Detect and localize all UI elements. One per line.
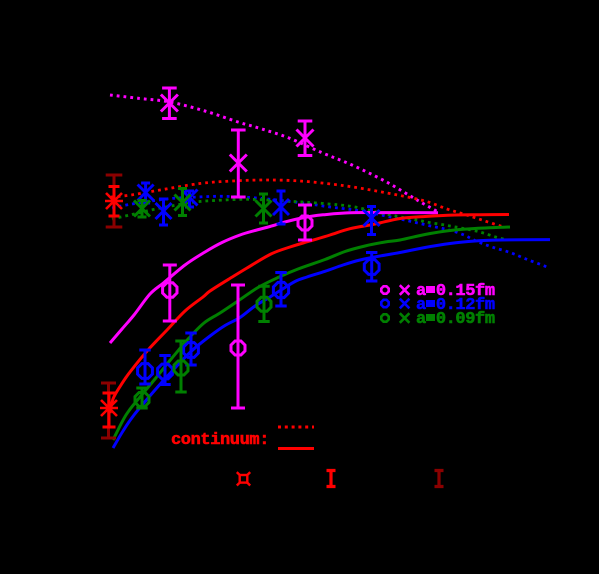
error bar X3 a=0.12fm — [185, 191, 194, 207]
circle marker 4 a=0.12fm — [273, 282, 288, 297]
error bar continuum point lower (red) — [103, 393, 116, 427]
circle marker 3 a=0.09fm — [257, 297, 271, 311]
legend label continuum: — [171, 432, 269, 449]
circle marker 1 a=0.12fm — [138, 364, 153, 379]
error bar X1 a=0.15fm — [162, 88, 177, 119]
legend X a=0.09fm — [400, 313, 410, 323]
error bar circle 3 a=0.12fm — [185, 333, 196, 365]
solid curve continuum (red) — [110, 215, 509, 414]
X marker 5 a=0.12fm — [364, 210, 380, 226]
error bar X2 a=0.15fm — [231, 130, 246, 197]
error bar circle 2 a=0.12fm — [159, 356, 170, 385]
legend label a=0.12fm — [416, 297, 495, 314]
currency-sign glyph (red) — [237, 472, 250, 485]
circle marker 3 a=0.12fm — [184, 343, 199, 358]
dotted curve a=0.09fm fit (green) — [112, 199, 507, 240]
legend circle a=0.09fm — [381, 314, 388, 321]
X marker 1 a=0.15fm — [161, 95, 178, 112]
X marker 2 a=0.15fm — [230, 155, 247, 172]
error bar circle 1 a=0.09fm — [136, 388, 147, 408]
legend label a=0.15fm — [416, 283, 495, 300]
error bar X2 a=0.09fm — [178, 189, 187, 216]
circle marker 1 a=0.15fm — [163, 283, 177, 297]
solid curve a=0.12fm (blue) — [113, 240, 550, 448]
legend circle a=0.15fm — [381, 286, 388, 293]
dotted curve continuum fit (red) — [111, 180, 505, 228]
star marker continuum point upper (red) — [105, 193, 123, 209]
error bar X1 a=0.09fm — [138, 201, 147, 218]
X marker 3 a=0.15fm — [297, 130, 314, 147]
error bar X4 a=0.12fm — [277, 191, 286, 224]
legend solid line sample (continuum) — [278, 447, 314, 450]
error bar X1 a=0.12fm — [141, 183, 150, 203]
legend dotted line sample (continuum fit) — [278, 426, 314, 429]
error bar X3 a=0.15fm — [298, 121, 313, 156]
X marker 1 a=0.12fm — [138, 185, 154, 201]
circle marker 2 a=0.15fm — [231, 341, 245, 355]
error bar circle 3 a=0.15fm — [298, 205, 312, 240]
solid curve a=0.15fm (magenta) — [110, 213, 438, 343]
circle marker 3 a=0.15fm — [298, 216, 312, 230]
error bar continuum point upper (red) — [109, 187, 120, 217]
X marker 4 a=0.12fm — [273, 199, 289, 215]
star marker continuum point lower (red) — [100, 400, 118, 416]
error bar circle 5 a=0.12fm — [366, 253, 377, 282]
dotted curve a=0.15fm fit (magenta) — [110, 95, 439, 213]
error bar X5 a=0.12fm — [367, 207, 376, 235]
error bar circle 3 a=0.09fm — [258, 286, 269, 321]
systematic error bar lower (dark red) — [101, 383, 116, 438]
legend circle a=0.12fm — [381, 300, 388, 307]
error bar circle 1 a=0.15fm — [163, 265, 177, 321]
X marker 1 a=0.09fm — [134, 201, 150, 217]
X marker 3 a=0.12fm — [182, 190, 198, 206]
X marker 3 a=0.09fm — [256, 201, 272, 217]
letter I tick (bright red) — [327, 471, 336, 487]
legend X a=0.15fm — [400, 285, 410, 295]
circle marker 5 a=0.12fm — [364, 260, 379, 275]
circle marker 2 a=0.09fm — [174, 361, 188, 375]
solid curve a=0.09fm (green) — [113, 227, 510, 440]
systematic error bar upper (dark red) — [106, 175, 123, 227]
error bar circle 2 a=0.15fm — [231, 285, 245, 408]
X marker 2 a=0.12fm — [156, 203, 172, 219]
error bar circle 4 a=0.12fm — [275, 273, 286, 307]
X marker 2 a=0.09fm — [175, 195, 191, 211]
error bar circle 2 a=0.09fm — [175, 341, 186, 392]
dotted curve a=0.12fm fit (blue) — [112, 196, 548, 267]
legend label a=0.09fm — [416, 311, 495, 328]
legend X a=0.12fm — [400, 299, 410, 309]
error bar X2 a=0.12fm — [159, 199, 168, 225]
error bar circle 1 a=0.12fm — [139, 350, 150, 384]
error bar X3 a=0.09fm — [259, 194, 268, 223]
circle marker 1 a=0.09fm — [135, 393, 149, 407]
letter I tick (dark red) — [435, 471, 444, 487]
circle marker 2 a=0.12fm — [158, 364, 173, 379]
